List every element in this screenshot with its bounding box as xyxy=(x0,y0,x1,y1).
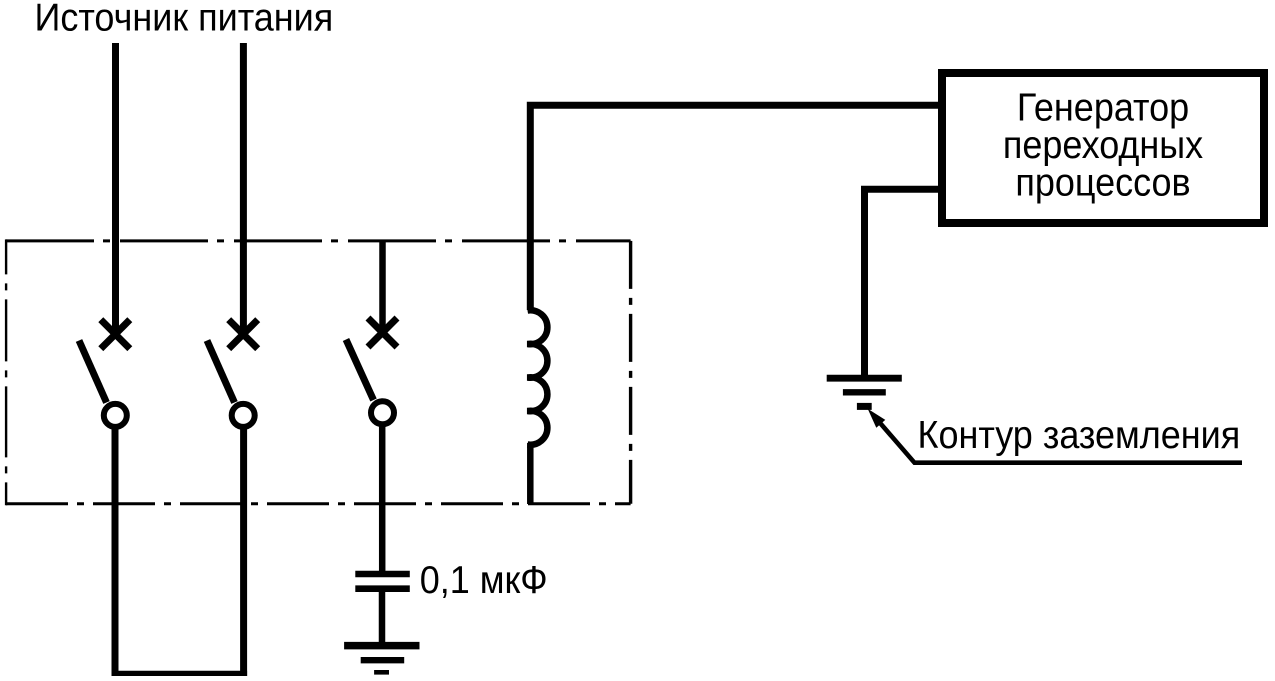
svg-text:Источник питания: Источник питания xyxy=(35,0,334,39)
switch SA3 blade xyxy=(346,340,374,401)
leader arrowhead xyxy=(868,409,886,428)
inductor L1 coil xyxy=(528,310,548,445)
generator box label xyxy=(1003,85,1204,203)
switch SA3 fixed contact cross xyxy=(368,318,397,347)
wire below SA1 xyxy=(112,427,119,676)
wire below SA2 xyxy=(240,427,247,676)
wire: phase A feed xyxy=(112,43,119,335)
ground symbol (earth loop) xyxy=(827,378,902,406)
wire: generator to earth ground xyxy=(865,189,939,375)
label: ground loop xyxy=(918,413,1241,456)
label: power source xyxy=(35,0,334,39)
switch SA2 blade xyxy=(207,341,235,403)
switch SA1 fixed contact cross xyxy=(101,320,130,349)
switch SA2 hinge circle xyxy=(232,404,255,427)
chamber boundary right edge xyxy=(629,241,632,504)
wire: bottom tie between SA1 and SA2 xyxy=(112,671,248,676)
chamber boundary (dash-dot box) top edge xyxy=(6,239,631,242)
wire: C1 to ground xyxy=(379,592,386,643)
wire: generator output to inductor (top L-shaped run) xyxy=(530,105,938,310)
switch SA3 hinge circle xyxy=(371,401,394,424)
ground symbol below C1 xyxy=(344,646,419,673)
wire: phase B feed xyxy=(240,43,247,335)
svg-text:0,1 мкФ: 0,1 мкФ xyxy=(420,558,548,601)
switch SA2 fixed contact cross xyxy=(229,320,258,349)
wire below SA3 to capacitor xyxy=(379,424,386,571)
svg-text:Контур заземления: Контур заземления xyxy=(918,413,1241,456)
chamber boundary bottom edge xyxy=(6,502,631,505)
generator box xyxy=(942,73,1264,223)
wire below inductor xyxy=(527,443,534,504)
value label 0,1 uF xyxy=(420,558,548,601)
switch SA1 hinge circle xyxy=(104,404,127,427)
wire: SA3 feed stub xyxy=(379,240,386,334)
capacitor C1 plates xyxy=(355,574,410,589)
svg-text:процессов: процессов xyxy=(1015,160,1190,203)
leader line to label xyxy=(878,420,1243,463)
switch SA1 blade xyxy=(79,341,107,403)
chamber boundary left edge xyxy=(5,239,7,505)
